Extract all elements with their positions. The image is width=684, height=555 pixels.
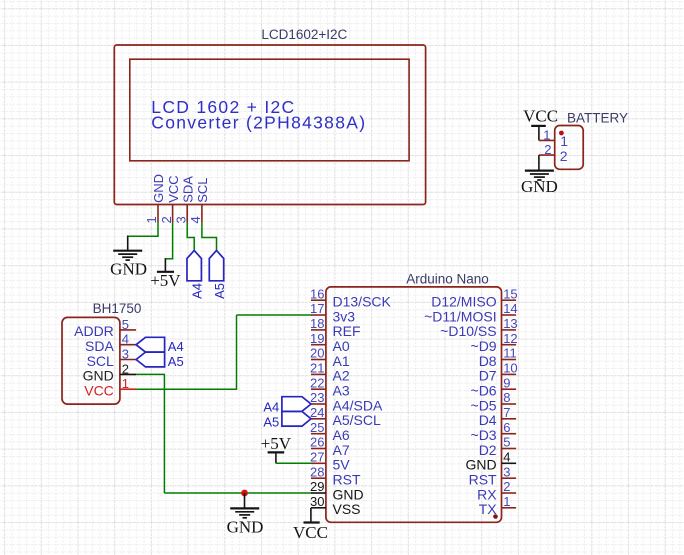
svg-text:28: 28 (310, 464, 324, 479)
svg-text:4: 4 (503, 450, 510, 465)
svg-text:4: 4 (122, 332, 129, 347)
svg-text:GND: GND (151, 174, 166, 203)
svg-text:~D3: ~D3 (471, 427, 497, 443)
svg-text:GND: GND (83, 368, 114, 384)
svg-text:A5/SCL: A5/SCL (333, 412, 381, 428)
svg-text:A4: A4 (263, 400, 279, 415)
svg-text:2: 2 (560, 148, 568, 164)
svg-text:1: 1 (144, 216, 159, 223)
svg-text:16: 16 (310, 286, 324, 301)
svg-text:A5: A5 (168, 354, 184, 369)
svg-text:25: 25 (310, 420, 324, 435)
svg-text:14: 14 (503, 301, 517, 316)
svg-text:+5V: +5V (261, 434, 292, 453)
svg-text:21: 21 (310, 361, 324, 376)
svg-text:D13/SCK: D13/SCK (333, 294, 392, 310)
svg-text:BH1750: BH1750 (93, 301, 142, 316)
svg-text:RST: RST (333, 472, 361, 488)
svg-text:30: 30 (310, 494, 324, 509)
svg-text:GND: GND (110, 259, 147, 278)
svg-text:5V: 5V (333, 457, 351, 473)
svg-text:2: 2 (159, 216, 174, 223)
svg-text:23: 23 (310, 390, 324, 405)
svg-text:GND: GND (227, 517, 264, 536)
svg-text:10: 10 (503, 361, 517, 376)
svg-text:SCL: SCL (195, 178, 210, 203)
svg-text:2: 2 (122, 361, 129, 376)
svg-text:~D10/SS: ~D10/SS (440, 323, 496, 339)
svg-text:SDA: SDA (85, 338, 114, 354)
svg-text:LCD1602+I2C: LCD1602+I2C (261, 27, 347, 42)
svg-text:1: 1 (503, 494, 510, 509)
svg-text:A6: A6 (333, 427, 350, 443)
svg-text:3v3: 3v3 (333, 308, 356, 324)
svg-text:A0: A0 (333, 338, 350, 354)
svg-text:A5: A5 (212, 283, 227, 299)
svg-text:A4: A4 (190, 283, 205, 299)
svg-text:4: 4 (188, 216, 203, 223)
svg-text:13: 13 (503, 316, 517, 331)
svg-text:D12/MISO: D12/MISO (431, 294, 496, 310)
svg-text:~D5: ~D5 (471, 397, 497, 413)
svg-text:17: 17 (310, 301, 324, 316)
svg-text:Arduino Nano: Arduino Nano (406, 271, 489, 286)
svg-text:RX: RX (477, 486, 497, 502)
svg-text:18: 18 (310, 316, 324, 331)
svg-text:A5: A5 (263, 414, 279, 429)
svg-text:A3: A3 (333, 383, 350, 399)
svg-text:3: 3 (503, 464, 510, 479)
svg-text:7: 7 (503, 405, 510, 420)
svg-text:BATTERY: BATTERY (567, 111, 628, 126)
svg-text:ADDR: ADDR (74, 323, 114, 339)
svg-text:SCL: SCL (87, 353, 114, 369)
svg-text:GND: GND (465, 457, 496, 473)
svg-text:+5V: +5V (150, 271, 181, 290)
svg-text:SDA: SDA (180, 176, 195, 203)
svg-text:~D11/MOSI: ~D11/MOSI (424, 308, 497, 324)
svg-text:D8: D8 (479, 353, 497, 369)
svg-text:27: 27 (310, 450, 324, 465)
svg-text:9: 9 (503, 375, 510, 390)
svg-text:20: 20 (310, 346, 324, 361)
svg-text:A4/SDA: A4/SDA (333, 397, 383, 413)
svg-text:5: 5 (503, 435, 510, 450)
svg-text:29: 29 (310, 479, 324, 494)
svg-text:VCC: VCC (293, 523, 328, 542)
svg-text:24: 24 (310, 405, 324, 420)
svg-text:D4: D4 (479, 412, 497, 428)
svg-text:1: 1 (560, 133, 568, 149)
svg-text:RST: RST (469, 472, 497, 488)
svg-text:VSS: VSS (333, 501, 361, 517)
svg-text:3: 3 (173, 216, 188, 223)
svg-text:A2: A2 (333, 368, 350, 384)
svg-text:~D9: ~D9 (471, 338, 497, 354)
svg-text:3: 3 (122, 347, 129, 362)
svg-text:D7: D7 (479, 368, 497, 384)
svg-text:VCC: VCC (523, 106, 558, 125)
svg-text:~D6: ~D6 (471, 383, 497, 399)
svg-text:2: 2 (503, 479, 510, 494)
svg-text:A7: A7 (333, 442, 350, 458)
svg-text:D2: D2 (479, 442, 497, 458)
svg-text:Converter (2PH84388A): Converter (2PH84388A) (151, 113, 366, 133)
svg-text:REF: REF (333, 323, 361, 339)
svg-text:A1: A1 (333, 353, 350, 369)
svg-text:VCC: VCC (166, 175, 181, 202)
svg-text:19: 19 (310, 331, 324, 346)
svg-text:8: 8 (503, 390, 510, 405)
svg-text:6: 6 (503, 420, 510, 435)
svg-text:GND: GND (333, 486, 364, 502)
svg-text:GND: GND (521, 177, 558, 196)
svg-text:VCC: VCC (84, 383, 114, 399)
svg-text:22: 22 (310, 375, 324, 390)
svg-text:5: 5 (122, 317, 129, 332)
svg-text:12: 12 (503, 331, 517, 346)
svg-text:1: 1 (122, 376, 129, 391)
svg-text:1: 1 (543, 127, 550, 142)
svg-text:15: 15 (503, 286, 517, 301)
svg-text:2: 2 (544, 142, 551, 157)
svg-text:A4: A4 (168, 339, 184, 354)
svg-text:26: 26 (310, 435, 324, 450)
svg-text:11: 11 (503, 346, 517, 361)
